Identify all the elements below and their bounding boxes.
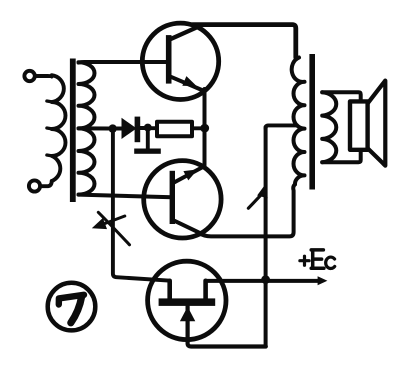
T1 primary cusp tick 2	[47, 128, 53, 129]
chassis ground symbol	[134, 128, 161, 154]
wire T2 secondary top to speaker	[322, 92, 361, 101]
T1 primary cusp tick 1	[47, 101, 53, 102]
adjustment arrow right head	[257, 183, 268, 198]
transformer T1 primary winding	[52, 75, 66, 181]
transformer T1 core	[70, 59, 76, 203]
wire T1 center tap	[79, 126, 111, 130]
wire Q3 emitter to +Ec junction	[188, 307, 266, 347]
junction resistor-emitter bus	[200, 124, 209, 133]
adjustment arrow left head	[92, 218, 107, 229]
T1 primary cusp tick 3	[47, 155, 53, 156]
junction diode-resistor	[144, 124, 152, 132]
junction +Ec	[261, 275, 270, 284]
+Ec arrowhead	[318, 276, 328, 285]
input terminal bottom	[29, 180, 40, 191]
transformer T2 secondary winding	[322, 92, 336, 162]
wire +Ec rail	[206, 279, 318, 283]
wire terminal top to T1 primary	[36, 74, 52, 78]
diode D1	[113, 117, 146, 143]
wire T1 secondary bottom to Q2 base	[79, 195, 173, 198]
figure number circle	[48, 283, 96, 331]
wire center tap down to +Ec junction	[264, 127, 268, 346]
label c subscript	[326, 257, 335, 268]
wire T1 primary to terminal bottom	[42, 181, 52, 186]
transistor Q1	[142, 23, 218, 99]
transformer T1 secondary winding	[79, 62, 95, 194]
input terminal top	[24, 71, 34, 81]
wire bias down to Q3 base1	[113, 130, 169, 281]
resistor R1	[148, 122, 202, 136]
label E	[311, 250, 324, 268]
figure number 7	[59, 295, 84, 323]
transformer T2 primary winding	[292, 58, 305, 185]
wire T2 center tap	[266, 125, 297, 128]
transistor Q2	[144, 161, 221, 238]
adjustment arrow left shaft	[97, 216, 125, 227]
label + sign	[300, 256, 309, 265]
wire emitter bus	[203, 89, 207, 167]
transistor Q3	[148, 261, 226, 339]
speaker coil box	[350, 101, 368, 149]
wire T1 secondary top to Q1 base	[79, 60, 169, 65]
adjustment arrow right shaft	[248, 195, 260, 208]
transformer T2 core	[309, 54, 315, 190]
wire top rail Q1 collector to T2 primary top	[193, 25, 296, 58]
wire Q2 collector to T2 primary bottom	[197, 185, 295, 237]
speaker horn	[368, 81, 386, 166]
adjustment arrow left stroke	[98, 212, 129, 245]
wire T2 secondary bottom to speaker	[322, 151, 361, 163]
junction tap-bias	[109, 124, 117, 132]
